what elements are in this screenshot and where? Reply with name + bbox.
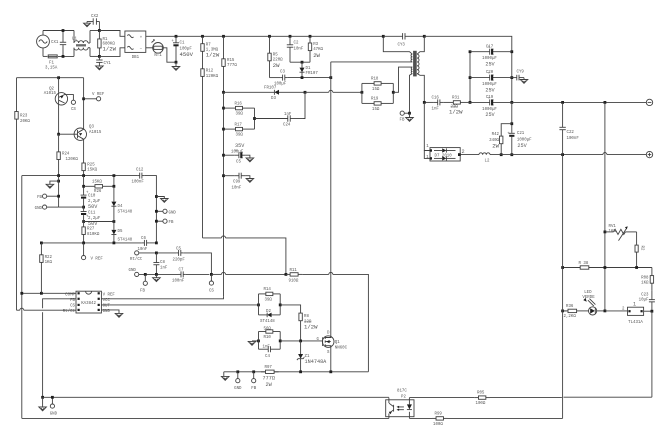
capacitor C16 <box>424 96 443 111</box>
wire Q2 vertical <box>58 78 60 93</box>
capacitor C99 <box>224 173 246 191</box>
svg-text:2W: 2W <box>492 143 499 150</box>
svg-text:1: 1 <box>633 302 636 308</box>
wire C11 to D4 line <box>84 215 114 243</box>
resistor R27 <box>82 227 100 237</box>
capacitor C3 <box>274 71 287 87</box>
wire C12 right corner <box>144 176 156 243</box>
wire pair right join <box>392 83 394 103</box>
junction R3 top <box>309 35 312 38</box>
svg-text:NT1: NT1 <box>154 54 162 58</box>
wire rail to cap bank <box>424 36 512 51</box>
ground for CY1 <box>96 66 104 70</box>
svg-text:CS: CS <box>70 305 75 309</box>
ground CY9 <box>520 78 528 84</box>
svg-text:R14: R14 <box>264 288 272 292</box>
svg-text:CY1: CY1 <box>104 62 112 66</box>
wire OUT to R8 <box>280 305 300 313</box>
svg-text:100nF: 100nF <box>132 181 145 185</box>
wire to bridge top <box>99 31 125 37</box>
transformer T1 primary winding <box>411 54 412 62</box>
svg-text:CS: CS <box>209 289 214 293</box>
svg-text:FR107: FR107 <box>306 72 319 76</box>
junction CX1 top <box>62 29 65 32</box>
ground gate pair <box>248 341 256 345</box>
svg-text:50V: 50V <box>88 204 98 210</box>
wire C21 bottom <box>511 137 513 155</box>
wire VCC to IC <box>101 297 223 299</box>
junction R26 tap <box>82 185 85 188</box>
resistor R08 <box>641 268 653 291</box>
wire bank right bus <box>511 52 513 103</box>
junction C2 top <box>289 35 292 38</box>
wire pair to aux winding <box>393 67 412 92</box>
wire far-left vertical <box>16 78 18 311</box>
svg-text:R23: R23 <box>20 115 28 119</box>
svg-text:V REF: V REF <box>103 293 116 297</box>
svg-text:R10: R10 <box>264 336 272 340</box>
wire C24 up to D3 line <box>304 92 306 118</box>
svg-text:3,15A: 3,15A <box>45 67 58 71</box>
svg-text:V REF: V REF <box>91 258 104 262</box>
wire C10 chain <box>83 176 85 194</box>
junction R12 link bottom <box>285 273 288 276</box>
junction D1 top <box>301 61 304 64</box>
svg-text:R16: R16 <box>235 103 243 107</box>
resistor R14 <box>259 288 281 305</box>
junction C21 plus <box>510 153 513 156</box>
capacitor C24 <box>255 113 304 128</box>
svg-text:R26: R26 <box>94 190 102 194</box>
junction D4 bus <box>113 174 116 177</box>
diode D2 <box>259 305 281 324</box>
svg-text:35V: 35V <box>235 143 245 149</box>
junction pair1 right <box>279 304 282 307</box>
svg-text:FB: FB <box>251 387 256 391</box>
wire D3 line hop drain <box>305 90 362 92</box>
svg-text:CX1: CX1 <box>51 41 59 45</box>
capacitor C4 gate <box>259 341 281 359</box>
resistor R05 <box>474 392 490 406</box>
svg-text:100nF: 100nF <box>567 137 580 141</box>
svg-text:C5: C5 <box>236 161 241 165</box>
svg-text:10nF: 10nF <box>232 186 242 190</box>
junction R42 top <box>510 122 513 125</box>
svg-text:C16: C16 <box>432 96 440 100</box>
resistor R10 <box>259 328 281 341</box>
wire base to Q3 <box>59 133 75 135</box>
resistor R12 <box>201 69 219 238</box>
svg-text:ST4148: ST4148 <box>118 239 133 243</box>
svg-text:2W: 2W <box>266 382 273 388</box>
junction R7 top <box>201 35 204 38</box>
wire minus line <box>512 101 647 103</box>
wire opto cathode R99 line <box>409 417 432 419</box>
terminal plus output <box>646 151 652 157</box>
svg-text:R 38: R 38 <box>579 262 589 266</box>
svg-text:R31: R31 <box>452 96 460 100</box>
junction CS stub <box>210 273 213 276</box>
svg-text:C19: C19 <box>486 96 494 100</box>
svg-text:25V: 25V <box>485 61 495 67</box>
svg-text:DB1: DB1 <box>132 56 140 60</box>
svg-text:1000µF: 1000µF <box>517 138 532 142</box>
svg-text:Rt/Ct: Rt/Ct <box>130 257 143 262</box>
junction R1 bottom <box>98 55 101 58</box>
junction C5 line <box>222 154 225 157</box>
junction c20r <box>510 76 513 79</box>
svg-text:220pF: 220pF <box>173 258 186 262</box>
wire R16R17 join <box>254 108 256 129</box>
wire Q1 source <box>330 346 332 372</box>
diode D1 <box>300 62 319 77</box>
svg-text:15KΩ: 15KΩ <box>92 181 102 185</box>
svg-text:15Ω: 15Ω <box>372 108 380 112</box>
svg-text:R17: R17 <box>235 124 243 128</box>
svg-text:1nF: 1nF <box>263 345 271 349</box>
svg-text:NN60C: NN60C <box>335 346 348 350</box>
ground source left <box>221 372 229 381</box>
terminal GND mid <box>129 269 139 277</box>
junction Q1 source <box>329 370 332 373</box>
junction aux node <box>222 91 225 94</box>
svg-text:25V: 25V <box>517 143 527 149</box>
wire top rail of input loop <box>43 30 74 32</box>
svg-text:R1: R1 <box>103 38 108 42</box>
terminal FB source <box>251 372 256 391</box>
svg-text:R7: R7 <box>206 43 211 47</box>
resistor R8 <box>299 313 318 341</box>
junction FB mid stub <box>144 273 147 276</box>
diode D4 <box>111 186 132 221</box>
ground IC <box>115 313 123 317</box>
svg-text:A1015: A1015 <box>44 92 57 96</box>
svg-text:CX2: CX2 <box>91 15 99 19</box>
capacitor C19 <box>470 96 512 118</box>
capacitor CY3 <box>383 33 424 48</box>
svg-text:R5: R5 <box>273 53 278 57</box>
svg-text:R3: R3 <box>313 43 318 47</box>
capacitor C11 <box>81 199 101 227</box>
capacitor C23 <box>639 290 655 311</box>
svg-text:D4: D4 <box>118 205 123 209</box>
svg-text:777Ω: 777Ω <box>263 376 275 382</box>
svg-text:C20: C20 <box>486 71 494 75</box>
svg-text:C12: C12 <box>136 169 144 173</box>
junction R8 bottom <box>299 340 302 343</box>
wire source line <box>224 371 369 373</box>
svg-text:C3: C3 <box>280 71 285 75</box>
wire aux column <box>223 92 225 296</box>
svg-text:COMP: COMP <box>65 293 75 297</box>
svg-text:FB: FB <box>400 119 405 123</box>
wire plus vertical lower <box>562 155 564 419</box>
wire drain join <box>330 336 332 338</box>
svg-text:39Ω: 39Ω <box>265 298 273 302</box>
wire gnd bus <box>22 175 138 177</box>
svg-text:2W: 2W <box>313 52 320 59</box>
terminal RtCt <box>130 251 143 262</box>
wire pair2 right <box>279 332 281 350</box>
junction c19l <box>469 101 472 104</box>
junction minus sense <box>604 101 607 104</box>
wire LED line <box>563 310 567 312</box>
svg-text:TL431A: TL431A <box>628 321 643 325</box>
junction CX1 bottom <box>62 55 65 58</box>
svg-text:R2: R2 <box>639 246 643 251</box>
svg-text:R27: R27 <box>87 227 95 231</box>
svg-text:L2: L2 <box>485 160 490 164</box>
svg-text:25V: 25V <box>485 87 495 93</box>
wire bottom fb line <box>43 396 389 398</box>
svg-text:RV1: RV1 <box>609 225 617 229</box>
svg-text:2,2KΩ: 2,2KΩ <box>564 315 577 319</box>
svg-text:1/2W: 1/2W <box>103 46 117 53</box>
terminal GND left <box>35 205 59 211</box>
terminal FB near transformer <box>400 111 410 123</box>
svg-text:L1: L1 <box>72 38 77 42</box>
wire secondary bottom <box>417 74 424 103</box>
svg-text:1nF: 1nF <box>284 113 292 117</box>
wire gnd line to C10C11 <box>59 206 84 208</box>
capacitor C21 <box>507 132 532 149</box>
wire clamp to drain <box>287 77 331 79</box>
svg-text:1/2W: 1/2W <box>449 108 463 115</box>
svg-text:R42: R42 <box>492 133 500 137</box>
junction D5 bottom <box>113 242 116 245</box>
svg-text:2: 2 <box>462 149 465 155</box>
fuse F1 <box>43 55 74 71</box>
svg-text:R18: R18 <box>371 77 379 81</box>
wire bank left bus <box>469 52 471 103</box>
junction gnd jog <box>57 180 60 183</box>
terminal minus output <box>646 99 652 105</box>
junction rail primary <box>382 35 385 38</box>
svg-text:120KΩ: 120KΩ <box>206 75 219 79</box>
svg-text:C24: C24 <box>283 123 291 127</box>
terminal GND source <box>234 372 242 391</box>
svg-text:FB: FB <box>37 196 42 200</box>
svg-text:C2: C2 <box>294 42 299 46</box>
wire primary pin2 to drain <box>331 61 413 63</box>
wire secondary top <box>417 36 424 54</box>
junction C6 corner <box>155 242 158 245</box>
wire plus line <box>490 153 646 155</box>
potentiometer RV1 <box>605 225 637 240</box>
svg-text:CY9: CY9 <box>517 70 525 74</box>
junction RV1 node <box>604 231 607 234</box>
wire OUT line <box>101 304 258 306</box>
wire bridge + output <box>146 35 176 37</box>
capacitor CY9 <box>512 70 525 80</box>
svg-text:Q2: Q2 <box>49 87 54 91</box>
resistor R39 small <box>635 232 643 268</box>
junction R39 bottom <box>635 266 638 269</box>
svg-text:15KΩ: 15KΩ <box>87 169 97 173</box>
junction pair right <box>392 91 395 94</box>
ground on FB vertical <box>46 181 59 188</box>
wire gnd to pair2 <box>252 340 259 342</box>
wire gnd bus vertical left <box>21 176 23 419</box>
resistor R3 <box>308 36 323 62</box>
resistor R23 <box>15 112 31 124</box>
svg-text:GND: GND <box>35 207 43 211</box>
svg-text:100µF: 100µF <box>231 150 244 154</box>
svg-text:39Ω: 39Ω <box>236 134 244 138</box>
wire C7 line <box>139 273 179 275</box>
junction Q2-Q3 base <box>57 133 60 136</box>
svg-text:C6: C6 <box>141 237 146 241</box>
junction R25 bus <box>82 174 85 177</box>
wire vref line <box>41 242 141 244</box>
svg-text:ST4148: ST4148 <box>118 211 133 215</box>
junction R27 bottom <box>82 242 85 245</box>
svg-text:D1: D1 <box>306 67 311 71</box>
svg-text:2W: 2W <box>273 62 280 69</box>
capacitor C1 <box>171 36 193 62</box>
junction R26 right <box>113 185 116 188</box>
AC source V1 <box>37 31 50 57</box>
wire bottom rail <box>22 417 389 419</box>
diode pack D7 <box>426 145 464 161</box>
junction C11 bottom <box>82 220 85 223</box>
capacitor C8 <box>153 253 168 275</box>
junction D4 bottom <box>113 220 116 223</box>
junction R15 top <box>222 35 225 38</box>
terminal CS mid <box>209 274 214 293</box>
wire aux bottom to FB node <box>410 74 413 114</box>
capacitor C12 <box>132 169 145 185</box>
optocoupler P2 817C <box>386 390 414 419</box>
ground below C8 <box>153 274 161 281</box>
junction Z1 bottom <box>299 370 302 373</box>
svg-text:100nF: 100nF <box>172 279 185 283</box>
resistor R97 <box>261 366 279 388</box>
junction R16 line <box>222 107 225 110</box>
junction COMP R22 <box>40 292 43 295</box>
junction VREF wire <box>82 97 85 100</box>
wire sec to D7 <box>424 102 430 158</box>
svg-text:C21: C21 <box>517 132 525 136</box>
wire rtct line <box>139 252 176 254</box>
wire R99 to plus vertical <box>448 417 563 419</box>
ground right of C99 <box>245 176 253 183</box>
capacitor C17 <box>470 45 512 67</box>
svg-text:C5: C5 <box>176 247 181 251</box>
junction R38 sense <box>604 266 607 269</box>
wire Rt/Ct from far-left <box>17 308 77 310</box>
svg-text:D2: D2 <box>266 310 271 314</box>
svg-text:D3: D3 <box>271 97 276 101</box>
junction gndbus jog2 <box>155 195 158 198</box>
resistor R38 <box>575 262 594 269</box>
junction c20l <box>469 76 472 79</box>
junction D3 right <box>304 91 307 94</box>
bridge rectifier DB1 <box>125 31 146 60</box>
svg-text:817C: 817C <box>397 390 407 394</box>
junction C8 bottom <box>155 273 158 276</box>
svg-text:A1015: A1015 <box>89 131 102 135</box>
resistor R22 <box>40 243 53 293</box>
resistor R11 <box>286 269 302 283</box>
transformer T1 secondary winding <box>417 54 419 73</box>
svg-text:15Ω: 15Ω <box>372 88 380 92</box>
wire C2-R3 bottoms <box>290 61 310 63</box>
svg-text:C99: C99 <box>233 181 241 185</box>
capacitor CX1 <box>51 31 66 57</box>
terminal V REF top <box>84 93 105 101</box>
svg-text:10nF: 10nF <box>294 48 304 52</box>
wire R12 to R11 link <box>203 236 286 275</box>
svg-text:Q3: Q3 <box>89 126 94 130</box>
junction GND right <box>155 210 158 213</box>
resistor R31 <box>444 96 470 115</box>
capacitor C5 <box>173 247 186 262</box>
svg-text:R12: R12 <box>206 70 214 74</box>
svg-text:C17: C17 <box>486 45 494 49</box>
junction R1 top <box>98 29 101 32</box>
wire right bus to C21 <box>511 102 513 132</box>
svg-text:C22: C22 <box>567 131 575 135</box>
wire slope rail to Q3 <box>83 78 85 99</box>
junction pair2 right <box>279 340 282 343</box>
svg-text:1nF: 1nF <box>160 267 168 271</box>
terminal CS at Q2 <box>66 95 76 112</box>
svg-text:R8: R8 <box>304 315 309 319</box>
svg-text:C7: C7 <box>179 268 184 272</box>
junction LED sense <box>604 310 607 313</box>
junction C10 bottom <box>82 206 85 209</box>
svg-text:10nF: 10nF <box>138 248 148 252</box>
junction pair2 left <box>257 340 260 343</box>
junction R42 bottom <box>500 153 503 156</box>
resistor R1 <box>98 31 117 57</box>
svg-text:CS: CS <box>71 108 76 112</box>
svg-text:GND: GND <box>103 310 111 314</box>
svg-text:D5: D5 <box>118 230 123 234</box>
svg-text:450V: 450V <box>180 51 194 58</box>
transformer T1 core <box>413 51 417 77</box>
wire C7 to CS node <box>186 273 210 275</box>
junction FB right <box>155 220 158 223</box>
resistor R15 <box>222 36 238 92</box>
terminal FB mid <box>140 274 147 293</box>
ground below C1 <box>172 62 180 70</box>
svg-text:1nF: 1nF <box>432 107 440 111</box>
capacitor CX2 <box>87 15 99 31</box>
svg-text:VERDE: VERDE <box>582 296 595 300</box>
junction FB stub <box>252 370 255 373</box>
wire to bridge bottom <box>99 48 125 57</box>
svg-text:R97: R97 <box>265 366 273 370</box>
svg-text:R15: R15 <box>227 59 235 63</box>
transistor Q1 MOSFET <box>317 331 348 354</box>
svg-text:R19: R19 <box>371 98 379 102</box>
junction GND stub <box>236 370 239 373</box>
wire D4 vertical <box>113 176 115 187</box>
svg-text:C8: C8 <box>160 261 165 265</box>
svg-text:R24: R24 <box>62 152 70 156</box>
wire minus sense vertical <box>604 102 606 311</box>
wire CS line to R11 <box>211 272 286 274</box>
ground right of C12 branch <box>156 197 168 203</box>
terminal FB left <box>37 194 59 200</box>
svg-text:Rt/Ct: Rt/Ct <box>63 309 76 314</box>
junction R17 line <box>222 128 225 131</box>
junction snubber pair left <box>361 91 364 94</box>
wire R38 line <box>563 267 652 269</box>
junction rail secondary <box>423 35 426 38</box>
